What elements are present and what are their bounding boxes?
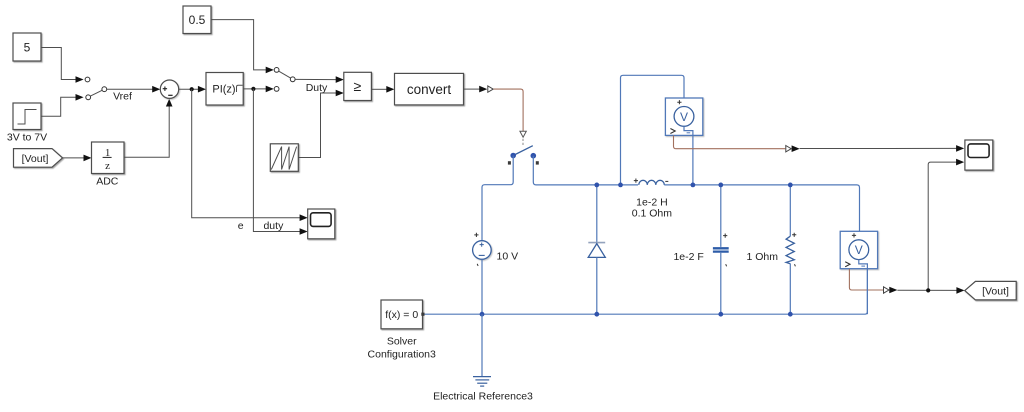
wire step -> manual switch input 2 (41, 97, 76, 116)
resistor R1 wire to bottom bus (789, 264, 791, 315)
polarity marks C1 (723, 234, 727, 238)
physical signal wire sensor U3 -> PS-Simulink converter (849, 269, 883, 290)
sum junction U2 (+/-) (160, 80, 178, 98)
wire ADC -> sum (feedback) (124, 106, 169, 157)
wire switch -> sum, net Vref (107, 88, 153, 90)
wire sawtooth -> relational operator input 2 (298, 93, 336, 158)
diode D1 (588, 242, 605, 244)
switch contact dot right (531, 153, 537, 159)
svg-text:[Vout]: [Vout] (982, 286, 1009, 298)
duty scope block (308, 209, 335, 239)
manual switch2: contact circle (top, connected) (274, 68, 279, 73)
svg-text:V: V (680, 110, 688, 124)
voltage sensor U1 box (665, 98, 702, 135)
manual switch2: common circle (290, 77, 295, 82)
svg-text:≥: ≥ (353, 78, 361, 94)
physical signal wire sensor1 -> PS-Simulink converter (674, 135, 786, 148)
diode D1 wire from top bus (596, 185, 598, 243)
svg-text:1e-2 F: 1e-2 F (673, 251, 703, 263)
switch terminal marks (508, 161, 511, 164)
wire source bottom -> bottom bus (481, 259, 483, 314)
physical signal wire converter -> switch control port (494, 89, 524, 131)
dashed link to switch lever (522, 139, 524, 147)
svg-text:0.5: 0.5 (189, 13, 206, 27)
constant block "0.5" (183, 6, 211, 34)
step block "3V to 7V" (13, 103, 41, 130)
junction dot bottom: diode (594, 312, 599, 317)
svg-text:0.1 Ohm: 0.1 Ohm (632, 208, 673, 220)
solver configuration block (381, 300, 423, 329)
sensor U3 internal notch (859, 260, 868, 269)
wire switch left leg -> source V1 (482, 156, 513, 241)
sensor U1 internal notch (684, 126, 693, 135)
ground Electrical Reference3 (481, 314, 483, 376)
polarity marks R1 (792, 233, 796, 237)
svg-text:10 V: 10 V (497, 250, 519, 262)
wire Vout node -> scope input 2 (928, 162, 956, 290)
manual switch2: lever (279, 71, 291, 78)
Goto tag [Vout] (965, 281, 1016, 300)
junction dot bottom: resistor (788, 312, 793, 317)
top bus segment after inductor (664, 185, 859, 231)
scope block (V scope) (965, 140, 993, 170)
wire relop -> convert (371, 88, 386, 90)
data type conversion block "convert" (395, 73, 464, 105)
wire sum -> PI(z) with node e junction (179, 88, 199, 90)
Simulink-PS converter hollow arrow (488, 86, 493, 92)
svg-text:[Vout]: [Vout] (22, 153, 49, 165)
junction dots top bus (594, 183, 599, 188)
diode D1 wire to bottom bus (596, 257, 598, 314)
unit delay block ADC (1/z) (92, 142, 125, 174)
sensor U1 circle V (674, 107, 694, 127)
wire error e: junction -> duty scope input 1 (192, 89, 300, 218)
wire duty: junction -> duty scope input 2 (253, 89, 300, 232)
svg-text:Configuration3: Configuration3 (368, 349, 436, 361)
manual switch Vref: lever (90, 90, 102, 96)
svg-text:e: e (238, 220, 244, 232)
wire [Vout] -> ADC (63, 157, 85, 159)
junction dot bottom: source (480, 312, 485, 317)
capacitor C1 plates (713, 247, 729, 249)
svg-text:Vref: Vref (113, 91, 132, 103)
resistor R1 wire from top bus (789, 185, 791, 236)
wire -> node Vout -> goto tag (897, 289, 956, 291)
svg-text:z: z (105, 160, 110, 172)
polarity marks L1 (634, 179, 638, 183)
manual switch2: open contact circle (bottom) (274, 87, 279, 92)
svg-text:3V to 7V: 3V to 7V (7, 132, 47, 144)
capacitor C1 wire to bottom bus (720, 253, 722, 314)
From tag [Vout] (14, 149, 63, 168)
polarity marks V1 (474, 233, 478, 237)
relational operator block >= (344, 72, 372, 100)
resistor R1 zigzag (786, 236, 794, 264)
manual switch Vref: common circle (102, 87, 107, 92)
wire sensor1 right terminal -> top bus (692, 135, 694, 185)
inductor L1 (639, 180, 665, 185)
svg-text:duty: duty (263, 220, 284, 232)
svg-text:ADC: ADC (96, 176, 119, 188)
PS-Simulink converter hollow arrow (Vout) (884, 287, 889, 293)
wire convert -> Simulink-PS converter (464, 88, 480, 90)
svg-text:Duty: Duty (306, 82, 328, 94)
wire switch2 -> relational operator, net Duty (295, 78, 336, 80)
manual switch Vref: open contact circle (top) (85, 77, 90, 82)
sensor U3 circle V (849, 240, 869, 260)
constant block "5" (13, 33, 41, 61)
svg-text:PI(z): PI(z) (212, 84, 235, 96)
switch contact dot left (510, 153, 516, 159)
svg-text:Electrical Reference3: Electrical Reference3 (433, 391, 533, 403)
wire PI -> switch2 lower input with duty junction (243, 88, 266, 90)
wire 0.5 -> manual switch2 input 1 (211, 20, 266, 70)
svg-text:convert: convert (407, 82, 452, 97)
PS-Simulink converter hollow arrow (786, 146, 791, 152)
capacitor C1 wire from top bus (720, 185, 722, 247)
wire PS-converter -> scope input 1 (800, 147, 957, 149)
repeating sequence (sawtooth) block (270, 144, 298, 172)
PS input port arrow (down) at switch gate (520, 131, 526, 137)
discrete PI controller block PI(z) (206, 73, 243, 106)
wire sensor1 measurement loop (621, 75, 685, 185)
svg-text:1 Ohm: 1 Ohm (746, 251, 778, 263)
wire 5 -> manual switch input 1 (41, 48, 76, 80)
svg-text:5: 5 (24, 41, 31, 55)
bottom bus (0V rail) (423, 269, 868, 315)
DC voltage source V1 (473, 241, 492, 260)
svg-text:V: V (855, 243, 863, 257)
wire sensor U3 right terminal -> bottom bus (866, 269, 868, 315)
voltage sensor U3 box (840, 231, 877, 268)
manual switch Vref: contact circle (bottom, connected) (86, 95, 91, 100)
junction dot bottom: capacitor (718, 312, 723, 317)
svg-text:f(x) = 0: f(x) = 0 (385, 309, 418, 321)
electrical switch SW: lever (513, 146, 533, 156)
wire switch right leg -> top bus (533, 156, 638, 185)
svg-text:Solver: Solver (387, 336, 417, 348)
